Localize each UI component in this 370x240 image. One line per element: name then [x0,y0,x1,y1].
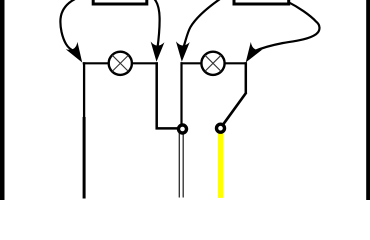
frame right edge [366,0,370,200]
wire (left vertical from lamp wire to bottom) [83,62,85,118]
switch terminal 1 (ring) [179,125,187,133]
lamp L1 (circle with X) [109,52,132,75]
curved arrow 3 (from box 2 left, down-left) [175,0,220,62]
lamp L2 (circle with X) [201,52,224,75]
box 1 (top left, cut off) [93,0,147,4]
box 2 (top right, cut off) [234,0,289,4]
switch lever (diagonal from vertical wire to terminal 2) [224,93,247,124]
curved arrow 4 (from box 2 right, loop right then down-left) [240,2,320,66]
curved arrow 2 (from box 1 right, straight down) [150,0,165,62]
frame left edge [0,0,5,200]
curved arrow 1 (from box 1 left to node at left vertical) [60,0,88,66]
switch terminal 2 (ring) [217,124,225,132]
yellow wire (below terminal 2) [218,133,223,198]
wire (vertical under arrow 3 down to terminal 1) [180,62,182,125]
wire (vertical under arrow 4) [245,62,248,93]
neutral wire (double line below terminal 1) [179,133,183,198]
wire (vertical under arrow 2, bends right to terminal 1) [157,62,181,128]
wire (left circuit horizontal, node at y=63.3) [83,62,158,64]
wire (right circuit horizontal) [181,62,247,64]
